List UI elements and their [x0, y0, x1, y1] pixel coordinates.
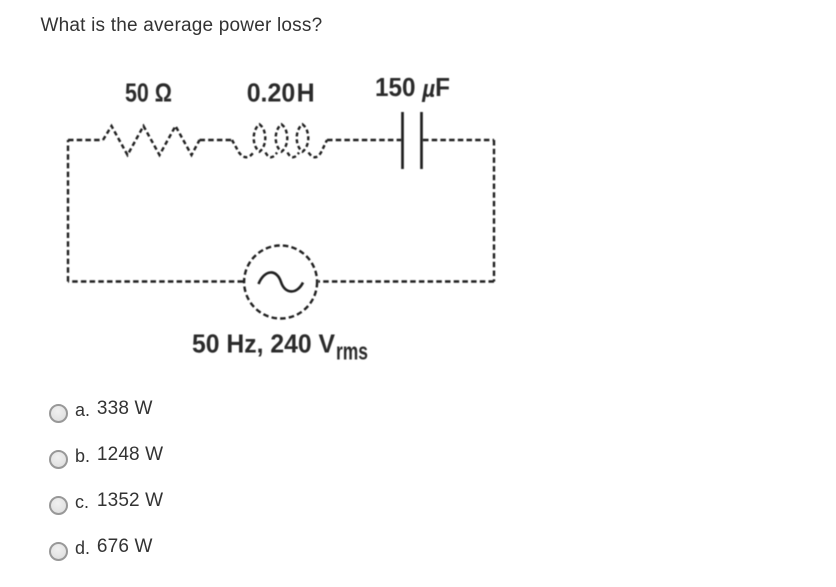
- wire bottom right segment: [319, 280, 495, 282]
- ac source sine symbol: [259, 272, 304, 291]
- capacitor C 150 uF plates: [403, 112, 422, 169]
- wire capacitor-to-corner: [423, 139, 494, 141]
- svg-text:rms: rms: [336, 339, 368, 366]
- svg-text:50 Ω: 50 Ω: [125, 77, 172, 107]
- wire inductor-to-capacitor: [327, 139, 401, 141]
- svg-text:0.20H: 0.20H: [247, 77, 315, 107]
- resistor R 50 ohm: [103, 126, 200, 155]
- wire bottom left segment: [68, 280, 243, 282]
- wire left vertical: [67, 140, 69, 282]
- svg-text:50 Hz, 240 V: 50 Hz, 240 V: [192, 329, 336, 359]
- wire top-left segment: [68, 139, 103, 141]
- wire right vertical: [493, 140, 495, 282]
- ac source V1 circle: [244, 246, 317, 319]
- svg-text:150 µF: 150 µF: [375, 72, 450, 103]
- inductor L 0.20 H: [232, 124, 327, 157]
- wire resistor-to-inductor: [200, 139, 233, 141]
